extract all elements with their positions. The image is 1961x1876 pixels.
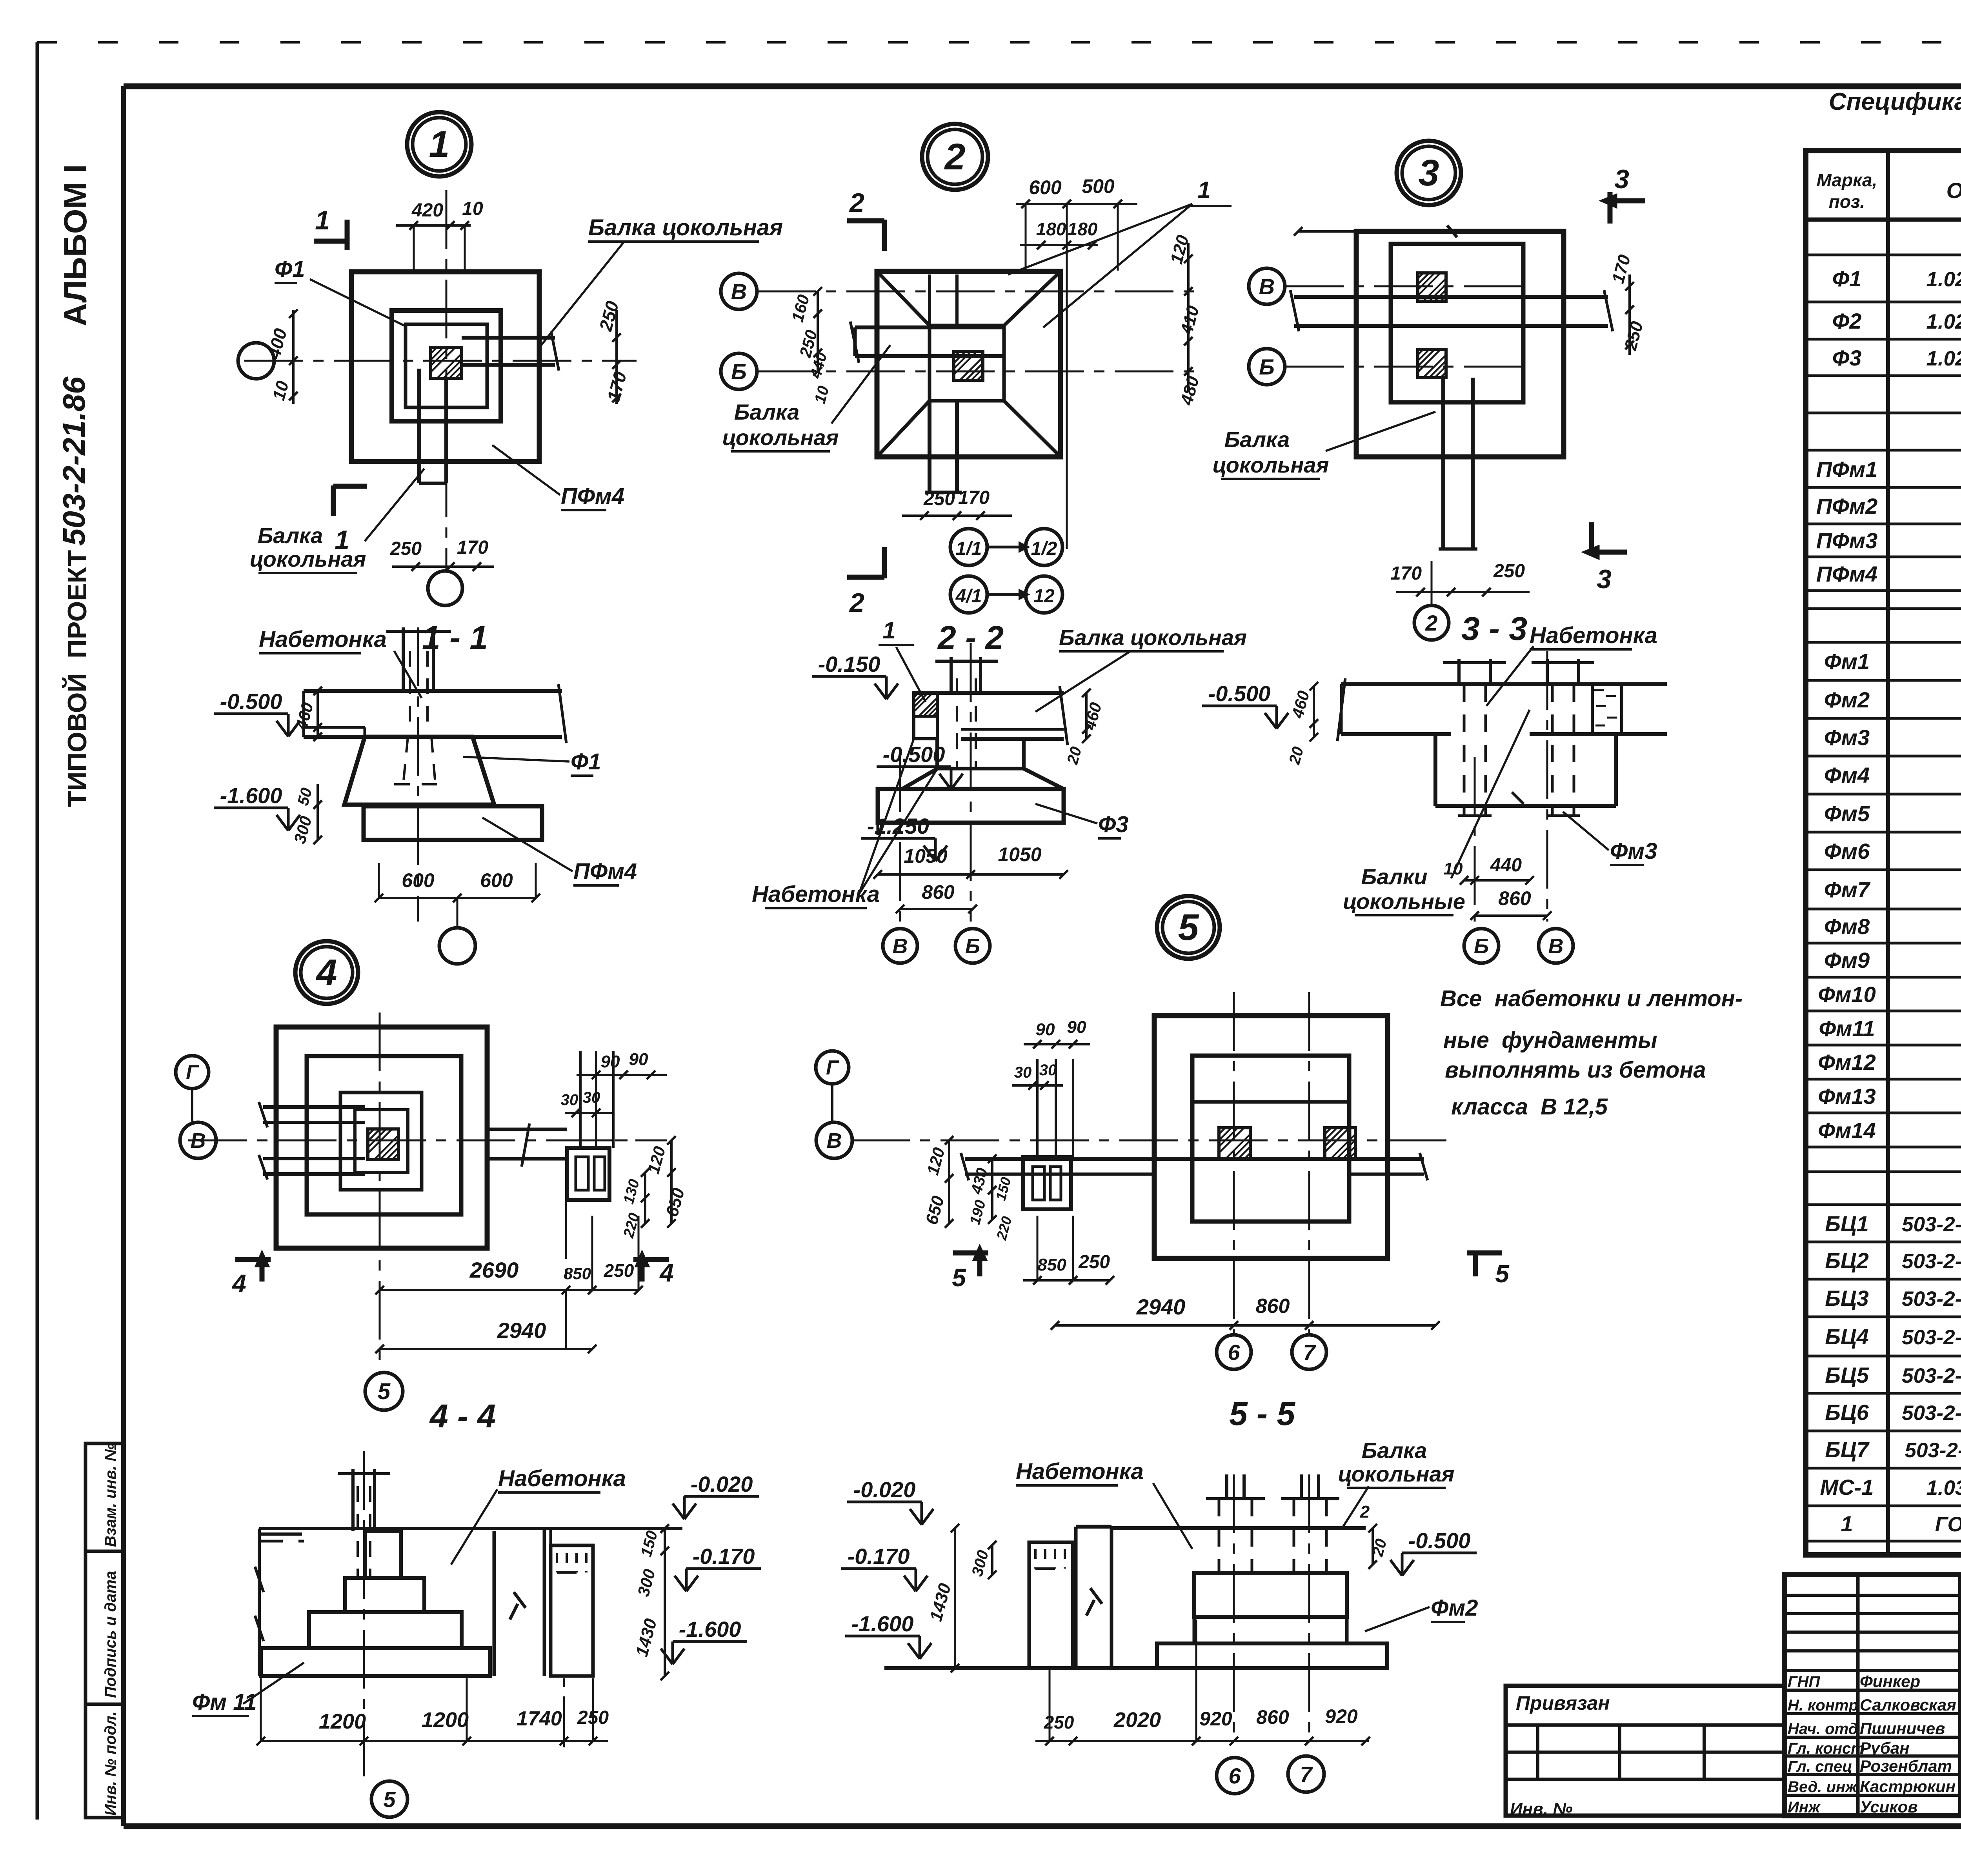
node 1 top dimension 420 10 [396,198,483,271]
svg-text:Марка,: Марка, [1817,170,1877,190]
node 5 left section detail [1023,1059,1073,1209]
node 2 axis circle Б [721,353,757,389]
svg-text:Фм9: Фм9 [1824,948,1870,973]
table cell texts [1816,225,1961,1543]
svg-text:Гл. спец: Гл. спец [1788,1758,1852,1775]
svg-text:Все набетонки и лентон-: Все набетонки и лентон- [1440,986,1743,1011]
svg-text:503-2-21.86 альбом IV: 503-2-21.86 альбом IV [1905,1439,1961,1462]
node 2 label Балка цокольная [722,345,890,451]
svg-text:250: 250 [577,1707,609,1728]
svg-text:Гл. конст: Гл. конст [1788,1740,1865,1757]
svg-text:2: 2 [849,588,864,618]
node 1 label Балка цокольная top [541,215,783,345]
svg-text:6: 6 [1228,1763,1241,1788]
svg-text:Балка: Балка [1362,1438,1427,1463]
section 2-2 bottom dims 1050 1050 860 [873,843,1068,913]
node 3 axis circle В [1249,268,1285,304]
node 3 section mark 3 top [1602,164,1645,224]
svg-text:Фм2: Фм2 [1824,687,1870,712]
node marker 5 [1157,896,1220,959]
svg-text:ГОСТ 24379.1-80: ГОСТ 24379.1-80 [1935,1513,1961,1536]
svg-text:Б: Б [1259,354,1275,379]
section 4-4 elevation -1.600 [661,1617,747,1664]
svg-text:250: 250 [604,1260,634,1281]
node 1 section mark 1 top [314,205,347,250]
node 5 section mark 5 right [1467,1253,1510,1288]
svg-text:180: 180 [1068,219,1098,239]
node 2 horizontal beam [850,322,1004,363]
svg-text:Кастрюкин: Кастрюкин [1860,1777,1956,1796]
section 1-1 centerline [417,627,419,922]
node 1 column hatched [431,347,462,378]
svg-text:ПФм3: ПФм3 [1816,528,1878,553]
node 1 axis circle bottom [428,571,462,605]
svg-text:цокольные: цокольные [1343,889,1465,914]
svg-text:2: 2 [1425,611,1437,635]
svg-text:600: 600 [480,869,513,891]
section 2-2 title [937,619,1004,656]
svg-text:В: В [731,279,747,304]
svg-text:5: 5 [1495,1260,1510,1288]
svg-text:3 - 3: 3 - 3 [1461,610,1527,647]
node 4 beam to section [487,1123,567,1167]
svg-text:Фм1: Фм1 [1824,649,1870,674]
node 2 right dimensions [1167,233,1203,407]
svg-text:-0.020: -0.020 [853,1477,916,1502]
section 5-5 axis circle 7 [1288,1756,1324,1792]
node 4 dim 2940 [375,1318,597,1353]
svg-text:170: 170 [1390,563,1422,584]
node marker 4 [295,941,358,1004]
section 1-1 beam band [304,684,566,743]
svg-text:Спецификация к схеме распол: Спецификация к схеме расположения фундам… [1829,88,1961,115]
svg-text:Набетонка: Набетонка [1016,1459,1144,1484]
node 1 label Ф1 [275,256,404,325]
svg-text:Балка: Балка [734,400,800,424]
svg-text:Фм8: Фм8 [1824,914,1870,939]
svg-text:90: 90 [1036,1020,1055,1039]
section 1-1 elevation -0.500 [214,689,300,736]
section 4-4 label Набетонка [451,1466,626,1565]
svg-text:Инв. № подл.: Инв. № подл. [102,1711,119,1816]
svg-text:БЦ3: БЦ3 [1825,1286,1869,1311]
svg-text:Фм14: Фм14 [1818,1118,1876,1143]
section 3-3 label Набетонка [1486,623,1657,706]
node 5 dims 90 90 30 30 [1012,1018,1090,1090]
node 4 axis circle В [180,1122,216,1158]
svg-text:170: 170 [958,487,990,508]
svg-text:БЦ6: БЦ6 [1825,1400,1869,1425]
svg-text:-0.170: -0.170 [693,1544,755,1569]
section 5-5 title [1229,1395,1295,1432]
svg-text:Фм7: Фм7 [1824,877,1871,902]
svg-text:Г: Г [826,1056,839,1079]
svg-text:Привязан: Привязан [1516,1692,1610,1714]
svg-text:250: 250 [1078,1252,1110,1272]
node 5 centerlines [851,992,1451,1333]
svg-text:250: 250 [1044,1712,1074,1732]
section 4-4 title [429,1398,496,1434]
node marker 2 [922,124,988,190]
svg-text:БЦ5: БЦ5 [1825,1363,1869,1387]
table header texts [1817,168,1961,212]
privyazan box [1506,1686,1785,1819]
svg-text:1.020-1/83.вып.1-1: 1.020-1/83.вып.1-1 [1926,268,1961,291]
svg-text:Фм6: Фм6 [1824,839,1870,863]
node 2 axis circle В [721,273,757,309]
svg-text:Ф1: Ф1 [275,256,305,282]
node marker 1 [407,112,471,176]
section 1-1 label Ф1 [463,749,601,776]
svg-text:БЦ2: БЦ2 [1825,1248,1869,1273]
svg-text:Ф1: Ф1 [571,749,601,774]
svg-text:250: 250 [923,489,955,509]
node 2 connection markers 1/1 1/2 [950,529,1062,565]
section 4-4 needle columns right [551,1529,593,1747]
svg-text:Набетонка: Набетонка [1530,623,1657,648]
note text concrete class [1440,986,1743,1120]
vertical stamp text ТИПОВОЙ ПРОЕКТ 503-2-21.86 АЛЬБОМ I [56,164,93,807]
section 5-5 columns with dashes [1206,1474,1339,1573]
svg-text:2940: 2940 [497,1318,546,1343]
svg-text:90: 90 [629,1050,648,1069]
svg-text:4: 4 [659,1259,674,1287]
svg-text:Рубан: Рубан [1860,1739,1910,1757]
section 5-5 label Набетонка [1016,1459,1192,1549]
section 4-4 elevation -0.170 [675,1544,761,1591]
svg-text:БЦ1: БЦ1 [1825,1211,1869,1236]
svg-text:500: 500 [1082,175,1115,197]
section 5-5 label Балка цокольная [1338,1438,1455,1529]
node 5 axis circle 6 [1217,1335,1251,1369]
node 2 left dimensions [788,287,832,405]
svg-text:2: 2 [944,136,966,178]
node 5 inner square [1192,1056,1349,1222]
svg-text:920: 920 [1199,1708,1232,1730]
svg-text:1/1: 1/1 [956,538,982,559]
svg-text:Салковская: Салковская [1860,1696,1956,1714]
node 3 axis circle Б [1249,349,1285,385]
section 5-5 axis circle 6 [1217,1758,1253,1794]
section 5-5 needle columns left [1029,1542,1073,1698]
svg-text:ТИПОВОЙ ПРОЕКТ: ТИПОВОЙ ПРОЕКТ [62,550,92,807]
node marker 3 [1397,141,1461,205]
svg-text:ГНП: ГНП [1788,1673,1820,1691]
svg-text:Балка: Балка [258,523,323,548]
svg-text:ПФм2: ПФм2 [1816,494,1878,518]
svg-text:В: В [1548,934,1564,958]
svg-text:1.030.1-1 вып. 4-1: 1.030.1-1 вып. 4-1 [1926,1476,1961,1500]
svg-text:250: 250 [1493,561,1525,582]
node 3 label Балка цокольная [1213,412,1435,479]
section 2-2 label Ф3 [1035,804,1129,838]
svg-text:600: 600 [402,869,435,891]
svg-text:850: 850 [564,1264,591,1283]
svg-text:Фм12: Фм12 [1818,1050,1876,1074]
section 5-5 right dim 20 [1360,1502,1390,1569]
svg-text:цокольная: цокольная [722,425,839,450]
node 3 top edge break [1294,225,1457,237]
section 5-5 centerlines [1234,1474,1309,1741]
svg-text:4: 4 [316,952,337,993]
svg-text:250: 250 [390,538,422,559]
svg-text:Фм10: Фм10 [1818,982,1876,1007]
specification title [1829,88,1961,144]
svg-text:Фм3: Фм3 [1824,725,1870,750]
node 1 foundation Ф1 double square [392,311,501,421]
node 3 vertical beam [1439,378,1477,549]
node 4 hatched column [368,1129,398,1160]
svg-text:5: 5 [378,1379,391,1404]
svg-text:5: 5 [383,1787,396,1812]
svg-text:7: 7 [1300,1762,1313,1787]
svg-text:30: 30 [583,1089,600,1106]
node 3 horizontal beam [1290,290,1613,331]
node 4 axis circle 5 bottom [365,1372,403,1410]
section 3-3 label Фм3 [1563,812,1657,865]
section 4-4 label Фм11 [192,1663,304,1716]
node 1 label ПФм4 [492,445,624,510]
section 3-3 columns [1443,659,1594,816]
svg-text:5: 5 [1178,907,1199,948]
svg-text:30: 30 [1014,1064,1032,1081]
title block signatures column [1788,1670,1961,1816]
svg-text:860: 860 [1256,1706,1289,1728]
svg-text:Взам. инв. №: Взам. инв. № [102,1443,119,1547]
svg-text:Фм5: Фм5 [1824,801,1870,826]
svg-text:В: В [893,934,908,958]
node 1 bottom dimension 250 170 [390,537,494,571]
svg-text:Усиков: Усиков [1860,1798,1918,1816]
svg-text:цокольная: цокольная [1213,453,1329,477]
section 2-2 elevation -1.250 [861,814,947,861]
svg-text:5: 5 [952,1263,966,1292]
node 4 outer square [276,1027,487,1248]
node 4 stepped inner rects [340,1093,422,1190]
svg-text:1: 1 [1197,177,1210,203]
node 3 hatched columns [1418,273,1446,378]
svg-text:1/2: 1/2 [1031,538,1057,559]
svg-text:180: 180 [1036,219,1066,239]
svg-text:2940: 2940 [1136,1294,1186,1319]
node 1 left dimension 400 10 [263,309,298,404]
svg-text:ПФм4: ПФм4 [561,484,624,509]
outer sheet border top dashed [37,41,1961,44]
svg-text:Балка цокольная: Балка цокольная [1059,625,1247,650]
svg-text:-0.500: -0.500 [220,689,282,714]
section 1-1 bottom dim 600 600 [375,863,540,902]
section 2-2 beam band [914,686,1068,745]
svg-text:Ф3: Ф3 [1098,812,1129,837]
svg-text:1200: 1200 [319,1710,366,1733]
section 1-1 label Набетонка [259,627,422,698]
svg-text:2: 2 [1360,1502,1370,1522]
section 3-3 centerlines [1475,651,1547,922]
node 2 bottom dimension 250 170 [902,487,1012,520]
section 4-4 axis circle 5 [371,1781,407,1817]
svg-text:поз.: поз. [1829,191,1865,212]
svg-text:Ф1: Ф1 [1832,266,1862,291]
svg-text:класса В 12,5: класса В 12,5 [1451,1094,1608,1120]
title block frame [1785,1574,1961,1816]
node 2 column hatched [954,351,983,380]
section 2-2 elevation -0.150 [812,652,898,699]
svg-text:6: 6 [1228,1340,1240,1365]
svg-text:Нач. отд: Нач. отд [1788,1720,1858,1738]
svg-text:Б: Б [731,359,747,384]
node 4 axis circle Г [176,1056,209,1122]
section 3-3 foundation outline [1435,734,1616,806]
section 5-5 ground line [884,1666,1387,1670]
svg-text:Б: Б [965,934,980,958]
section 4-4 column [338,1469,390,1576]
svg-text:10: 10 [462,198,483,219]
section 1-1 left dims 460 20 50 300 [290,687,322,845]
node 5 left rotated dims [922,1136,1015,1242]
svg-text:Балка: Балка [1224,427,1290,452]
section 5-5 elevations [841,1477,933,1659]
svg-text:3: 3 [1597,564,1612,594]
section 4-4 right dims 150 300 1430 [632,1524,669,1680]
svg-text:ПФм4: ПФм4 [573,859,637,884]
node 1 horizontal beam [462,331,559,371]
svg-text:1200: 1200 [422,1708,469,1732]
svg-text:170: 170 [457,537,488,558]
svg-text:440: 440 [1490,855,1522,876]
svg-text:503-2-21.86 альбом IV: 503-2-21.86 альбом IV [1902,1287,1961,1311]
node 5 dim 850 250 [1023,1216,1114,1285]
svg-text:10: 10 [1444,859,1463,878]
svg-text:Подпись и дата: Подпись и дата [102,1571,119,1698]
svg-text:2690: 2690 [469,1258,519,1282]
node 5 axis circle В [816,1122,852,1158]
specification table grid [1806,151,1961,1555]
section 2-2 foundation block [902,739,1064,789]
svg-text:503-2-21.86 альбом IV: 503-2-21.86 альбом IV [1902,1402,1961,1425]
svg-text:4: 4 [231,1269,246,1298]
svg-text:Балка цокольная: Балка цокольная [588,215,783,240]
svg-text:Розенблат: Розенблат [1860,1757,1952,1775]
node 3 section mark 3 bottom [1584,522,1627,594]
svg-text:Фм3: Фм3 [1610,838,1657,864]
node 5 inner band [1192,1100,1349,1104]
section 2-2 label Балка цокольная [1035,625,1247,712]
section 1-1 base slab ПФм4 [344,805,542,840]
node 5 section mark 5 [952,1247,988,1292]
section 1-1 column above [386,627,451,729]
svg-text:МС-1: МС-1 [1820,1475,1874,1500]
node 2 leader 1 [1008,177,1232,327]
section 5-5 top slab line [1111,1528,1366,1573]
svg-text:Н. контр: Н. контр [1788,1697,1858,1714]
node 2 section mark 2 top [847,188,884,251]
node 1 right dimension 250 170 [595,299,630,404]
svg-text:4/1: 4/1 [955,586,982,607]
section 2-2 axis circle В [883,929,917,963]
section 2-2 hatched beam end [914,693,937,739]
node 3 inner foundation [1391,244,1523,402]
section 3-3 axis circle В [1539,929,1573,963]
node 3 outer slab [1356,231,1564,457]
svg-text:Инв. №: Инв. № [1510,1800,1573,1819]
svg-text:1: 1 [315,205,330,235]
section 1-1 axis circle bottom [439,898,475,964]
svg-text:2020: 2020 [1113,1708,1161,1732]
svg-text:выполнять из бетона: выполнять из бетона [1445,1057,1706,1083]
svg-text:цокольная: цокольная [250,547,366,571]
node 4 inner square [307,1056,461,1214]
svg-text:-0.500: -0.500 [1408,1528,1471,1553]
node 4 section marks 4 [231,1253,674,1298]
section 3-3 title [1461,610,1527,647]
svg-text:30: 30 [561,1091,578,1109]
section 2-2 base slab Ф3 [878,789,1064,835]
svg-text:90: 90 [1067,1018,1086,1037]
section 5-5 elevation -0.500 right [1390,1528,1477,1576]
section 4-4 centerline [363,1451,365,1776]
section 4-4 stepped foundation Фм11 [261,1531,490,1676]
section 4-4 top structure [255,1529,682,1676]
node 4 dims 90 90 30 30 [561,1050,667,1117]
svg-text:860: 860 [1256,1295,1290,1318]
svg-text:Инж: Инж [1788,1799,1821,1816]
svg-text:ПФм4: ПФм4 [1816,562,1878,586]
node 5 beam strip [961,1153,1428,1180]
svg-text:1740: 1740 [517,1707,562,1730]
node 5 outer square [1154,1016,1388,1258]
svg-text:Б: Б [1474,934,1489,958]
section 2-2 elevation -0.500 [877,742,963,789]
svg-text:-0.020: -0.020 [691,1472,753,1496]
section 3-3 dims 10 440 860 [1444,855,1552,920]
svg-text:12: 12 [1033,586,1055,607]
svg-text:1.020-1/83 вып.1-1: 1.020-1/83 вып.1-1 [1926,347,1961,370]
node 4 centerlines [188,1013,667,1369]
section 1-1 elevation -1.600 [214,783,300,831]
section 2-2 right dim 460 20 [1064,689,1105,767]
svg-text:860: 860 [922,881,955,903]
svg-text:1: 1 [882,617,895,644]
svg-text:420: 420 [411,200,443,221]
svg-text:-0.500: -0.500 [1208,681,1271,706]
svg-text:503-2-21.86 альбом IV: 503-2-21.86 альбом IV [1902,1213,1961,1236]
section 1-1 label ПФм4 [482,818,637,885]
svg-text:503-2-21.86 альбом IV: 503-2-21.86 альбом IV [1902,1326,1961,1349]
node 1 slab ПФм4 outline [351,272,539,462]
svg-text:-1.600: -1.600 [220,783,282,808]
node 5 axis circle Г [816,1051,849,1122]
svg-text:В: В [827,1129,842,1153]
svg-text:90: 90 [601,1052,620,1071]
svg-text:5 - 5: 5 - 5 [1229,1395,1295,1432]
svg-text:Ф2: Ф2 [1832,309,1862,333]
side stamp strip cells [85,1443,124,1818]
section 2-2 centerlines [900,643,971,922]
svg-text:Пшиничев: Пшиничев [1860,1719,1945,1738]
svg-text:1050: 1050 [998,843,1041,865]
svg-text:1050: 1050 [904,845,947,867]
svg-text:1: 1 [429,124,450,165]
svg-text:-1.600: -1.600 [679,1617,741,1641]
section 3-3 beam band [1337,678,1667,741]
node 4 beam strips from left [259,1102,365,1180]
svg-text:Финкер: Финкер [1860,1672,1920,1691]
section 5-5 foundation Фм2 [1157,1573,1387,1668]
svg-text:Фм4: Фм4 [1824,763,1870,787]
section 5-5 left dims 1430 300 [926,1524,997,1672]
svg-text:Г: Г [186,1061,199,1084]
svg-text:цокольная: цокольная [1338,1462,1455,1486]
